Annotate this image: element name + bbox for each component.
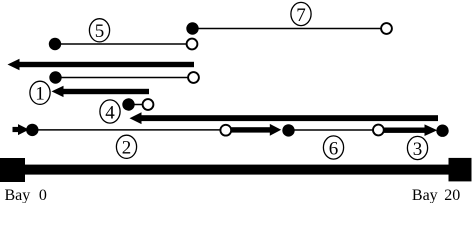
svg-text:7: 7	[296, 5, 306, 26]
svg-text:4: 4	[105, 102, 115, 123]
task 2 mid node (open)	[220, 125, 231, 136]
task line 5	[55, 43, 192, 45]
text Bay 20	[412, 187, 460, 204]
quay left end block	[0, 158, 25, 182]
svg-text:2: 2	[122, 138, 132, 159]
task 5 start node (filled)	[49, 38, 61, 50]
start marker arrow (small, right)	[13, 124, 30, 135]
label 1	[30, 81, 50, 104]
task 6 node (filled)	[282, 124, 294, 136]
task line 7	[193, 28, 387, 30]
task 1 start node (filled)	[49, 71, 61, 83]
task 5 end node (open)	[187, 39, 198, 50]
task 1 end node (open)	[188, 72, 199, 83]
task 4 end node (open)	[143, 99, 154, 110]
quay bar	[10, 165, 460, 175]
task line 1	[56, 77, 194, 79]
svg-text:3: 3	[413, 139, 423, 160]
label 2	[116, 135, 136, 159]
crane move arrow (left, for task 1)	[52, 86, 150, 97]
svg-text:5: 5	[95, 21, 105, 42]
label 6	[323, 136, 343, 160]
task 3 end node (filled)	[436, 125, 448, 137]
task 7 start node (filled)	[186, 22, 198, 34]
svg-text:Bay 0: Bay 0	[5, 187, 47, 203]
task line 6 segment	[289, 129, 379, 131]
task line 4	[129, 104, 149, 106]
label 4	[100, 100, 120, 124]
task 4 start node (filled)	[122, 98, 134, 110]
label 7	[291, 2, 311, 26]
task 2 start node (filled)	[26, 124, 38, 136]
crane move arrow (right, task 3)	[384, 124, 437, 136]
task line 2 first segment	[32, 129, 226, 131]
crane move arrow (right, task 6)	[232, 124, 282, 136]
task 3 start node (open)	[373, 125, 384, 136]
svg-text:Bay 20: Bay 20	[412, 187, 460, 203]
label 5	[89, 19, 109, 43]
task 7 end node (open)	[381, 23, 392, 34]
text Bay 0	[5, 187, 47, 204]
crane move arrow (left, upper)	[8, 59, 195, 70]
svg-text:1: 1	[35, 84, 45, 105]
svg-text:6: 6	[329, 138, 339, 159]
quay right end block	[449, 158, 472, 182]
label 3	[407, 136, 427, 160]
crane move arrow (left, long)	[130, 112, 439, 124]
